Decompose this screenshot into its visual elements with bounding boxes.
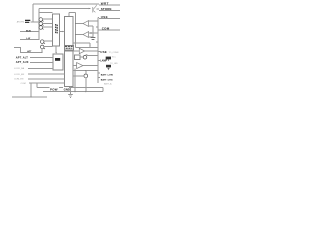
svg-text:USE: USE [100,50,107,54]
wire bus ticks [91,27,98,42]
node junction A2 out [75,34,76,35]
wire BATT stubs [98,73,100,78]
wire Q3 out [43,26,53,28]
svg-text:TO_CONN: TO_CONN [109,52,119,54]
capacitor C1 to ground [92,30,94,37]
transistor Q5 [40,45,44,49]
wire y47.7 [76,47,99,49]
transistor Q7 [93,5,96,13]
node junction rail x86 [85,91,86,92]
svg-text:TO.C: TO.C [112,57,117,59]
svg-text:USE: USE [101,15,108,19]
svg-text:POW: POW [50,87,58,91]
transistor Q8 [83,55,87,59]
wire Q5 emitter down [41,49,43,53]
wire vertical into U2 top [69,13,76,17]
wire Q9 collector up [85,71,87,75]
svg-text:COM_EN: COM_EN [14,79,24,81]
op-amp A3 right-facing [79,48,84,53]
label U1 vertical text [56,24,58,34]
wire USE2 stub [98,51,100,53]
op-amp A1 left-facing [83,21,89,27]
resistor R5 small box [75,55,81,60]
wire bias x75 [74,69,76,92]
svg-text:BATT_A: BATT_A [104,83,112,86]
svg-text:WRT: WRT [101,1,109,5]
svg-text:GND: GND [64,87,70,91]
wire base bus x39 [38,9,40,41]
svg-text:BATT_LOW: BATT_LOW [101,74,114,77]
wire rail y8.5 [39,8,90,10]
svg-text:APT: APT [27,50,32,53]
svg-text:APT_ALT: APT_ALT [16,56,28,59]
wire U1 to U4 arrow [55,46,57,53]
svg-text:STORE: STORE [101,7,112,11]
wire A2 in top [89,32,98,34]
wire row LOCK_BA [28,67,53,69]
svg-text:LAMP: LAMP [100,60,107,63]
wire row APT_AUX [30,61,53,63]
node junction A1 out [75,23,76,24]
wire A4 out [83,65,98,67]
wire A3 in [73,50,79,52]
wire U2 right y43 with down arrow [73,43,90,47]
wire top rail right stub [99,4,120,6]
svg-text:APT_AUX: APT_AUX [16,61,29,64]
wire row2 BLW [20,31,39,33]
wire vertical x31 to gnd line [30,83,32,97]
IC U2 box [64,17,73,46]
node junction Q9 [85,70,86,71]
transistor Q3 [39,26,43,30]
transistor Q4 [40,40,44,44]
wire Q8 up right [86,54,98,56]
wire U5 bottom drop [69,87,71,92]
ground GND symbol [68,94,73,97]
node junction x31 [31,97,32,98]
wire row LOCK_EN [28,73,65,75]
wire A1 in bottom [89,26,93,30]
wire USE stub [98,18,120,19]
wire Q9 emitter down [85,77,87,92]
wire A3 out [85,50,98,52]
wire R5 to Q8 [80,56,83,58]
svg-text:LOCK_EN: LOCK_EN [14,74,25,76]
op-amp A4 right-facing [77,63,83,69]
wire power label line y87.6 [37,87,103,89]
wire Q4 out [44,40,53,42]
battery B1 dark blob [106,57,111,60]
transistor Q2 [39,22,43,26]
node junction rail x75 [75,91,76,92]
transistor arrows [42,20,45,49]
wire bus x75.5 [75,13,77,48]
wire power rail y91.7 [43,88,103,92]
wire A1 out [76,23,84,25]
IC U5 box [65,51,74,87]
wire row1 to Q bases [31,21,40,23]
wire vertical x33 [32,4,34,22]
wire U1 to U2 arrow [60,31,64,33]
IC U4 box [53,54,63,70]
wire vertical x37 [36,83,38,88]
wire A2 out [76,34,84,36]
wire row COM_EN [28,78,65,80]
wire Q5 out [44,46,53,48]
svg-text:LOCK_BA: LOCK_BA [14,67,25,70]
wire Q1 out [43,18,53,20]
node junction Q5 [42,52,43,53]
wire right bus x98 [97,18,99,84]
diode D1 blob with arrow [106,65,111,68]
wire A1 in top [89,20,98,22]
label control box U3 [64,46,73,50]
label BLK_IN [25,20,30,22]
wire top rail [33,3,99,5]
svg-text:COM: COM [21,83,26,85]
wire arrowhead on rail y8.5 [89,8,91,9]
wire LAMP stub [98,60,100,62]
IC U1 box [53,14,60,46]
label U4 dark bar [55,58,60,61]
wire ground line y97 [12,96,47,98]
wire y70.5 [73,70,98,72]
transistor Q1 [39,18,43,22]
wire Q9 base in [73,75,84,77]
svg-text:BATT_CHG: BATT_CHG [101,79,113,82]
wire step row4 [14,48,42,53]
svg-text:COM: COM [102,27,110,31]
wire row3 L.W [20,38,39,40]
wire row COM2 [29,82,65,84]
wire STORE stub [96,9,120,10]
wire Q2 out [43,22,53,24]
wire A4 in [73,65,77,67]
svg-text:ANT.FM: ANT.FM [17,21,25,24]
wire y12.5 branch [39,12,53,14]
svg-text:TO_LED: TO_LED [110,63,118,65]
wire row APT_ALT [30,57,53,59]
wire COM row y30 [98,29,120,31]
wire A2 in bottom [89,36,93,38]
op-amp A2 left-facing [83,32,89,38]
transistor Q9 [84,74,88,78]
